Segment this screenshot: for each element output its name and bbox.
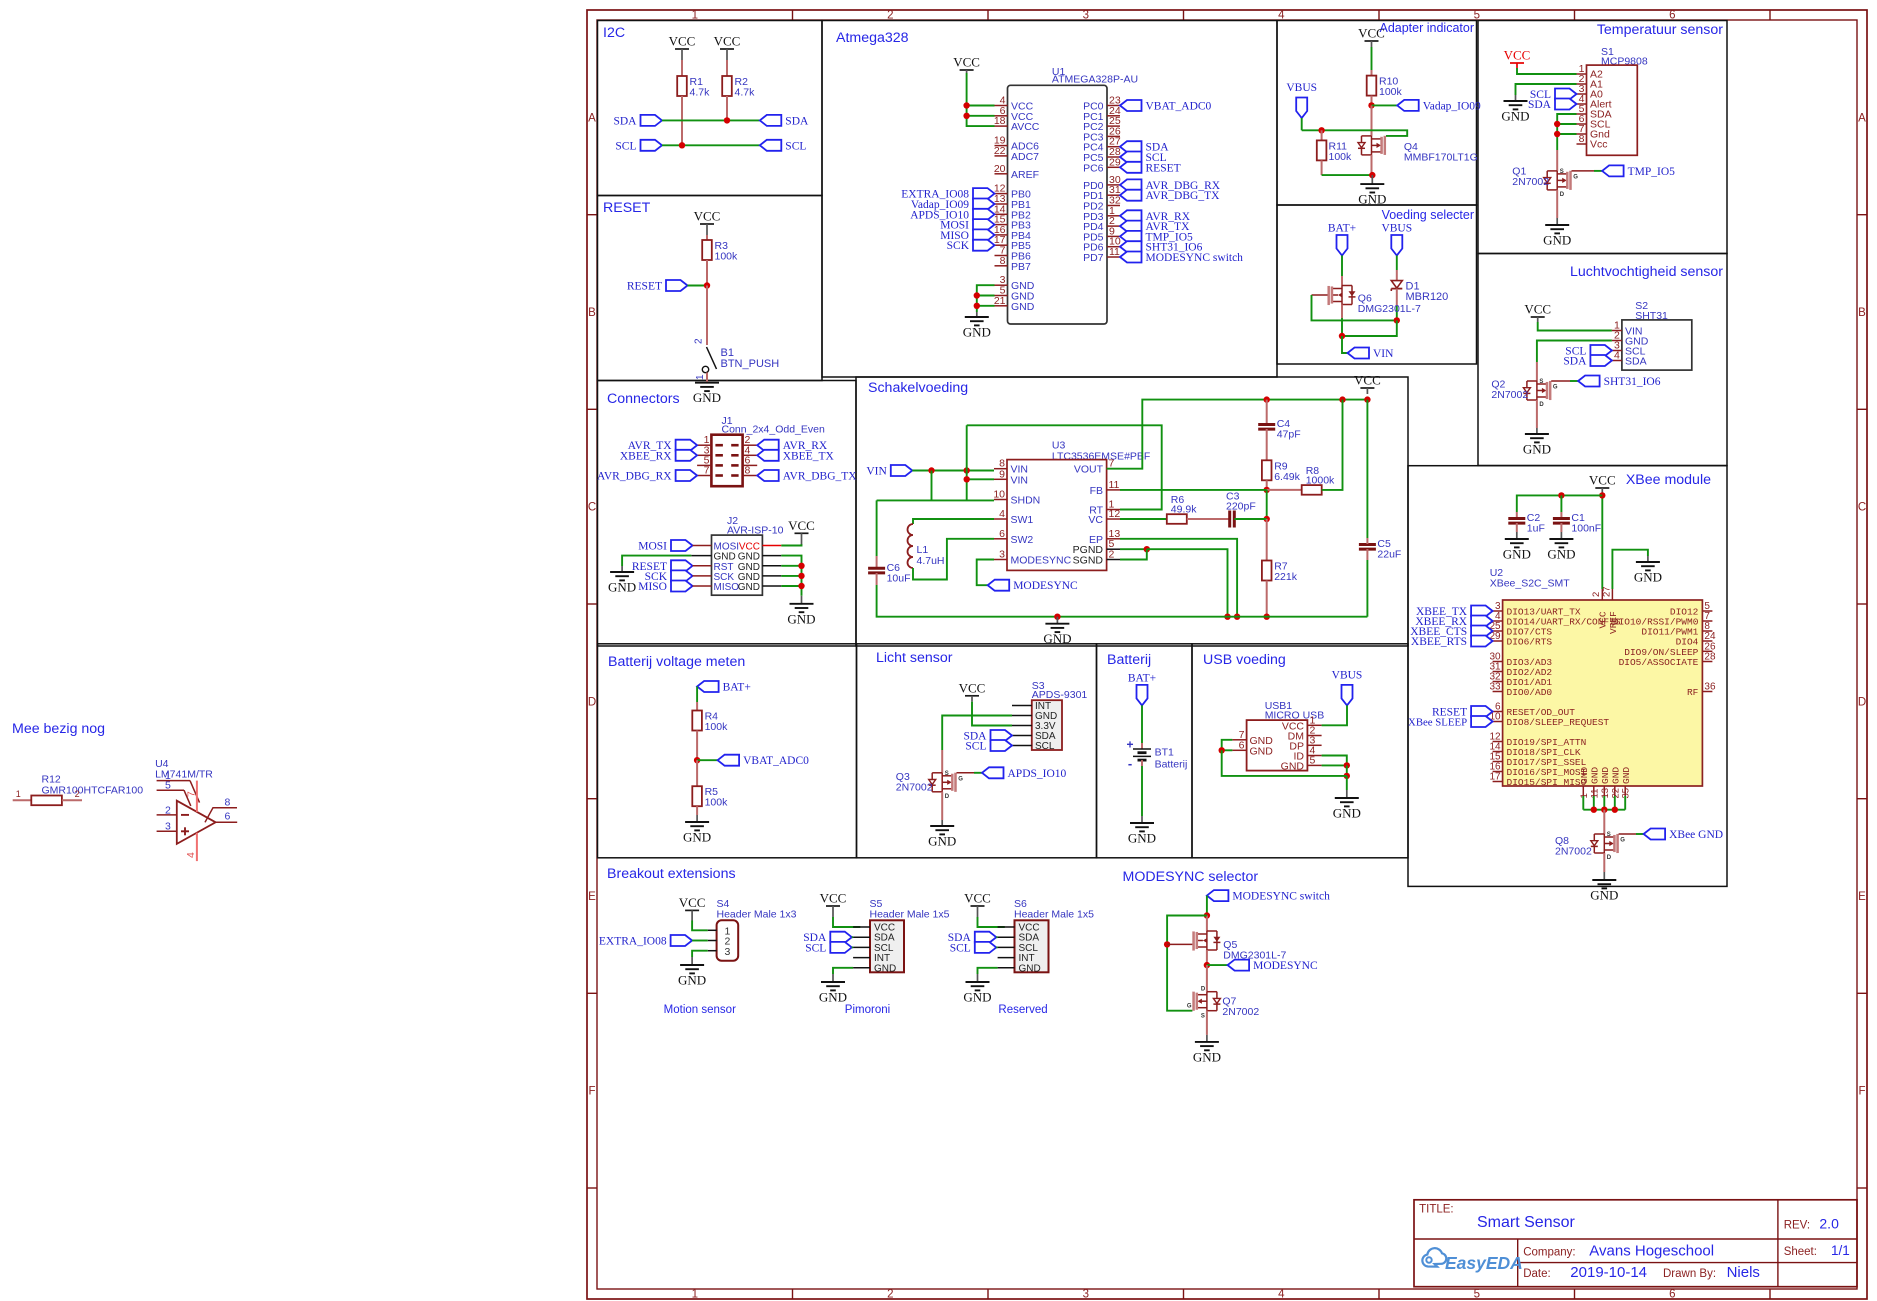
svg-text:D: D: [1560, 192, 1565, 198]
svg-text:VCC: VCC: [820, 891, 847, 906]
EasyEDA logo: [1422, 1248, 1522, 1273]
svg-text:VBUS: VBUS: [1332, 670, 1363, 682]
svg-text:VCC: VCC: [1589, 473, 1616, 488]
svg-text:100k: 100k: [1329, 151, 1353, 163]
pin 6 SW2 of U3: [994, 528, 1033, 546]
wire U2 gnd pin drop: [1582, 796, 1584, 810]
transistor Q3 2N7002: [896, 771, 963, 800]
svg-text:XBee module: XBee module: [1626, 472, 1711, 488]
pin 32 PD2 of U1: [1083, 195, 1121, 213]
svg-text:2N7002: 2N7002: [896, 782, 933, 794]
svg-text:1: 1: [695, 374, 706, 380]
wire U2 gnd pin drop: [1593, 796, 1595, 810]
frame row tick right: [1857, 214, 1867, 216]
pin 2 GND of S2: [1612, 330, 1649, 348]
svg-text:4: 4: [1278, 1288, 1285, 1300]
IC S2 SHT31: [1622, 300, 1692, 370]
svg-text:MBR120: MBR120: [1406, 291, 1449, 303]
svg-text:G: G: [1187, 1004, 1192, 1010]
wire node to flag: [697, 759, 718, 761]
pin 13 EP of U3: [1089, 528, 1120, 546]
svg-text:SCL: SCL: [805, 942, 826, 954]
pin 2 SDA of S6: [998, 936, 1015, 938]
section box Licht sensor: [857, 644, 1097, 858]
pin 4 SDA of S2: [1612, 350, 1647, 368]
wire R4 to node: [696, 731, 698, 761]
wire U2 gnd pin drop: [1603, 796, 1605, 810]
net port AVR_DBG_TX (U1): [1120, 190, 1220, 203]
net port Vadap_IO09 (adapter): [1397, 100, 1481, 113]
pin 2 A1 of S1: [1577, 73, 1604, 91]
frame row tick right: [1857, 992, 1867, 994]
wire R8 up to rail: [1322, 400, 1343, 490]
pin SCL of S3: [1012, 741, 1055, 752]
frame column tick top: [1183, 10, 1185, 20]
svg-text:4.7k: 4.7k: [735, 87, 756, 99]
wire gate to flag: [1594, 170, 1602, 172]
pin 1 VCC of USB1: [1282, 714, 1322, 732]
connector J1 Conn_2x4_Odd_Even: [711, 415, 825, 486]
junction VIN-pin9: [964, 467, 970, 473]
svg-text:GND: GND: [1523, 442, 1551, 457]
pin 6 GND of USB1: [1232, 739, 1273, 757]
svg-text:D: D: [1539, 402, 1544, 408]
wire GND pin21: [977, 305, 995, 307]
pin 19 ADC6 of U1: [994, 135, 1039, 153]
svg-text:A: A: [1858, 112, 1866, 124]
junction U1 vcc4: [963, 102, 969, 108]
wire node to R8: [1267, 489, 1302, 491]
frame column tick top: [1378, 10, 1380, 20]
wire VCC to R3: [706, 235, 708, 240]
svg-text:C: C: [1858, 502, 1866, 514]
power flag VCC (sht31): [1524, 302, 1551, 323]
wire R6 to C3: [1187, 518, 1230, 520]
pin 28 DIO5/ASSOCIATE of U2: [1619, 652, 1716, 669]
net port RESET (U1): [1120, 162, 1181, 175]
junction J2 gnd r2: [798, 563, 804, 569]
svg-text:BAT+: BAT+: [1328, 223, 1356, 235]
wire Q6 gate run: [1312, 294, 1328, 296]
net port SDA (S5): [803, 932, 852, 945]
svg-text:MODESYNC switch: MODESYNC switch: [1146, 252, 1244, 264]
wire C1 branch: [1560, 495, 1562, 512]
svg-text:VCC: VCC: [788, 518, 815, 533]
wire R1 to SCL line: [681, 96, 683, 145]
sheet frame inner border: [597, 20, 1857, 1289]
wire FB node down: [1266, 490, 1268, 519]
pin 1 RT of U3: [1089, 499, 1120, 517]
svg-text:1000k: 1000k: [1306, 474, 1335, 486]
net port AVR_TX (U1): [1120, 221, 1190, 234]
wire Q1 drain down: [1556, 190, 1558, 218]
frame row tick left: [587, 992, 597, 994]
transistor Q5 DMG2301L-7: [1192, 931, 1286, 962]
wire VCC to R1: [681, 60, 683, 76]
wire pin2 to gnd: [1516, 84, 1577, 95]
pin 10 PD6 of U1: [1083, 236, 1121, 254]
junction xbee gnd b: [1601, 807, 1607, 813]
wire Q2 gate: [1551, 380, 1570, 382]
svg-text:Date:: Date:: [1523, 1268, 1551, 1280]
svg-text:47pF: 47pF: [1277, 429, 1301, 441]
pin 10 DIO8/SLEEP_REQUEST of U2: [1489, 712, 1609, 729]
pin 1 of J1: [697, 444, 711, 446]
svg-text:Temperatuur sensor: Temperatuur sensor: [1597, 22, 1723, 38]
svg-text:VCC: VCC: [953, 55, 980, 70]
svg-text:GND: GND: [819, 990, 847, 1005]
svg-text:49.9k: 49.9k: [1171, 504, 1197, 516]
wire usb bottom rail: [1222, 750, 1347, 776]
wire GND left stub: [691, 555, 711, 557]
svg-text:AVR_DBG_TX: AVR_DBG_TX: [1146, 190, 1221, 202]
svg-text:SCL: SCL: [965, 741, 986, 753]
net port SDA (S3): [963, 730, 1012, 743]
svg-text:ATMEGA328P-AU: ATMEGA328P-AU: [1052, 74, 1138, 86]
section box I2C: [598, 21, 823, 196]
junction rail GND: [1054, 614, 1060, 620]
wire C4 top lead: [1266, 400, 1268, 424]
net port AVR_RX (J1): [757, 440, 828, 453]
module S3 APDS-9301: [1032, 680, 1088, 750]
svg-text:2: 2: [1109, 549, 1115, 561]
transistor Q2 2N7002: [1491, 379, 1558, 409]
IC S1 MCP9808: [1587, 46, 1648, 155]
wire Q2 drain down: [1536, 400, 1538, 428]
svg-text:E: E: [1858, 891, 1866, 903]
pin 3 SCL of S2: [1612, 340, 1646, 358]
svg-text:VCC: VCC: [714, 34, 741, 49]
wire GND r4 stub: [762, 585, 781, 587]
power flag VCC (U1): [953, 55, 980, 74]
frame column tick top: [792, 10, 794, 20]
wire GND left run: [622, 556, 691, 566]
svg-text:SDA: SDA: [613, 115, 637, 127]
junction VC node: [1264, 516, 1270, 522]
ground (S1): [1501, 95, 1529, 124]
svg-text:XBee GND: XBee GND: [1669, 829, 1723, 841]
net port AVR_DBG_TX (J1): [757, 470, 857, 483]
ground (S6): [963, 974, 991, 1005]
IC U3 LTC3536EMSE#PBF: [1007, 440, 1150, 571]
svg-text:ADC7: ADC7: [1011, 151, 1039, 163]
wire GND r4 run: [781, 585, 801, 587]
wire VCC to R10: [1371, 47, 1373, 70]
resistor R9 6.49k: [1262, 460, 1301, 483]
wire pin7 run: [1222, 740, 1233, 751]
frame column tick bottom: [792, 1289, 794, 1299]
svg-text:2N7002: 2N7002: [1555, 846, 1592, 858]
net port SHT31_IO6 (U1): [1120, 241, 1203, 254]
transistor Q4 MMBF170LT1G: [1358, 136, 1478, 164]
wire Q6 source down: [1341, 305, 1343, 319]
svg-text:11: 11: [1109, 479, 1120, 491]
svg-text:220pF: 220pF: [1226, 501, 1256, 513]
wire gate to flag: [1636, 833, 1644, 835]
resistor R2 4.7k: [722, 76, 755, 99]
svg-text:C: C: [588, 502, 596, 514]
pin 15 PB3 of U1: [994, 214, 1031, 232]
pin 4 ID of USB1: [1294, 745, 1322, 763]
svg-text:1: 1: [1579, 793, 1590, 798]
wire GND r3 run: [781, 575, 801, 577]
svg-text:BTN_PUSH: BTN_PUSH: [721, 358, 780, 370]
svg-text:33: 33: [1489, 682, 1501, 693]
section box Voeding selecter: [1277, 205, 1477, 364]
section box Batterij: [1097, 644, 1193, 858]
power flag VCC (schakel): [1354, 373, 1381, 395]
svg-text:G: G: [1553, 385, 1558, 391]
svg-text:100k: 100k: [715, 251, 739, 263]
svg-text:VCC: VCC: [1354, 373, 1381, 388]
svg-text:APDS-9301: APDS-9301: [1032, 689, 1088, 701]
svg-text:2: 2: [887, 1288, 893, 1300]
pin 6 SCL of S1: [1577, 113, 1611, 131]
net port VBUS (usb): [1332, 670, 1363, 706]
wire flag down: [1206, 896, 1208, 916]
wire down to Q1: [1556, 150, 1558, 171]
svg-text:5: 5: [1474, 9, 1480, 21]
frame column tick top: [1769, 10, 1771, 20]
frame row tick left: [587, 603, 597, 605]
svg-text:1/1: 1/1: [1831, 1243, 1850, 1258]
ground (J2 right): [787, 596, 815, 627]
svg-text:DMG2301L-7: DMG2301L-7: [1358, 303, 1421, 315]
power flag VCC (R2): [714, 34, 741, 61]
svg-text:35: 35: [1621, 788, 1632, 799]
net port SDA right: [760, 115, 809, 128]
wire SDA bus: [662, 119, 760, 121]
svg-text:GND: GND: [738, 582, 760, 593]
svg-text:GND: GND: [1611, 767, 1622, 784]
net port SCL (S3): [965, 740, 1012, 753]
net port MODESYNC switch (U1): [1120, 252, 1243, 265]
svg-text:USB voeding: USB voeding: [1203, 652, 1286, 668]
frame row tick left: [587, 408, 597, 410]
ground (C2): [1503, 532, 1531, 562]
wire VC to R6: [1120, 518, 1167, 520]
svg-text:13: 13: [1600, 788, 1611, 799]
svg-text:SHDN: SHDN: [1011, 495, 1041, 507]
wire D1 top lead: [1396, 270, 1398, 281]
frame row tick right: [1857, 1187, 1867, 1189]
pin 4 INT of S6: [998, 957, 1015, 959]
frame row tick right: [1857, 798, 1867, 800]
ground (sel): [1193, 1035, 1221, 1065]
svg-text:Sheet:: Sheet:: [1784, 1246, 1817, 1258]
power flag VCC (S4): [679, 895, 706, 911]
wire pin3 gnd: [692, 951, 708, 957]
svg-text:BAT+: BAT+: [1128, 672, 1156, 684]
section box Atmega328: [822, 21, 1277, 378]
wire L1 to SW2: [913, 539, 994, 580]
svg-text:8: 8: [745, 465, 751, 477]
junction Vadap node: [1368, 102, 1374, 108]
wire VBUS down: [1301, 118, 1303, 130]
svg-text:FB: FB: [1090, 485, 1103, 497]
pin 28 PC5 of U1: [1083, 146, 1121, 164]
svg-text:22: 22: [994, 145, 1006, 157]
pin 6 of J1: [743, 464, 758, 466]
connector J2 AVR-ISP-10: [712, 515, 784, 595]
net port MISO (J2): [638, 581, 692, 594]
connector S6 Header Male 1x5: [1014, 898, 1094, 974]
frame column tick bottom: [987, 1289, 989, 1299]
pin 6 RESET/OD_OUT of U2: [1493, 702, 1576, 719]
pin 12 VC of U3: [1088, 508, 1120, 526]
svg-text:VOUT: VOUT: [1074, 464, 1104, 476]
svg-text:VCC: VCC: [1358, 26, 1385, 41]
net port SCL (S2): [1565, 345, 1612, 358]
wire Q6 drain lead: [1341, 276, 1343, 286]
wire C5 top lead: [1366, 538, 1368, 544]
wire VBUS down: [1396, 256, 1398, 271]
svg-text:3: 3: [999, 549, 1005, 561]
wire left rail to C6: [876, 500, 878, 556]
wire to VIN flag: [1342, 336, 1348, 353]
ground (schakel): [1043, 617, 1071, 647]
net port TMP_IO5 (temp): [1602, 165, 1675, 178]
wire GND pin5: [977, 295, 995, 297]
svg-text:3: 3: [725, 946, 731, 958]
wire C5 bottom lead: [1366, 549, 1368, 560]
wire D1 to junction: [1396, 306, 1398, 320]
section box RESET: [598, 196, 823, 381]
pin 29 PC6 of U1: [1083, 156, 1121, 174]
svg-text:GND: GND: [963, 990, 991, 1005]
pin 3 MODESYNC of U3: [994, 549, 1072, 567]
junction J2 gnd r4: [798, 583, 804, 589]
wire to pin9: [967, 478, 994, 480]
junction usb gnd6: [1219, 747, 1225, 753]
svg-text:RESET: RESET: [1146, 162, 1181, 174]
pin 8 Vcc of S1: [1577, 133, 1608, 151]
wire SCL bus: [662, 144, 760, 146]
svg-text:GND: GND: [1547, 547, 1575, 562]
frame row tick right: [1857, 408, 1867, 410]
net port SCL left: [615, 140, 662, 153]
svg-text:SDA: SDA: [785, 115, 809, 127]
wire BT1 bottom lead: [1141, 760, 1143, 766]
wire C1 top lead: [1560, 512, 1562, 518]
transistor Q7 2N7002: [1187, 987, 1259, 1020]
svg-text:12: 12: [1109, 508, 1121, 520]
wire Q8 gate: [1619, 833, 1636, 835]
svg-text:1uF: 1uF: [1527, 523, 1545, 535]
pin 2 VCC of U2: [1591, 589, 1609, 629]
svg-text:REV:: REV:: [1784, 1219, 1810, 1231]
net port BAT+ (meten): [697, 681, 751, 694]
pin GND of S3: [1012, 711, 1057, 722]
svg-text:EasyEDA: EasyEDA: [1445, 1253, 1523, 1273]
svg-text:AVCC: AVCC: [1011, 121, 1040, 133]
net port VIN (schakel): [866, 465, 912, 478]
wire Q1 gate: [1572, 170, 1595, 172]
junction U1 vcc6: [963, 113, 969, 119]
net port SDA left: [613, 115, 662, 128]
wire U2 gnd pin drop: [1614, 796, 1616, 810]
pin 17 PB5 of U1: [994, 234, 1031, 252]
pin 24 PC1 of U1: [1083, 105, 1121, 123]
wire RST stub: [693, 565, 712, 567]
wire vert pin9-shdn: [966, 425, 968, 500]
pin 32 DIO1/AD1 of U2: [1489, 672, 1552, 689]
pin 1 A2 of S1: [1577, 63, 1604, 81]
svg-text:VCC: VCC: [964, 891, 991, 906]
pin 2 of J1: [743, 444, 758, 446]
net port SDA (U1): [1120, 141, 1169, 154]
svg-text:AREF: AREF: [1011, 169, 1039, 181]
pin 26 DIO9/ON/SLEEP of U2: [1624, 641, 1716, 658]
frame column tick bottom: [1769, 1289, 1771, 1299]
pin 25 DIO7/CTS of U2: [1489, 621, 1552, 638]
wire SCL to pin3 S6: [996, 946, 997, 948]
resistor R7 221k: [1262, 561, 1298, 584]
svg-text:MISO: MISO: [714, 582, 740, 593]
frame column tick top: [987, 10, 989, 20]
svg-text:XBEE_TX: XBEE_TX: [783, 450, 835, 462]
wire source to VIN node: [1341, 318, 1343, 336]
svg-text:SCL: SCL: [785, 140, 806, 152]
svg-text:VBUS: VBUS: [1286, 82, 1317, 94]
wire C6 bottom lead: [876, 573, 878, 585]
transistor Q6 DMG2301L-7: [1328, 286, 1421, 316]
resistor R3 100k: [702, 240, 738, 263]
wire C4 to R9: [1266, 429, 1268, 460]
svg-text:4: 4: [185, 852, 197, 858]
net port MODESYNC switch (sel): [1207, 890, 1330, 903]
wire SCL to pin3 S5: [852, 946, 853, 948]
pin 22 GND of U2: [1610, 767, 1621, 799]
wire U2 gnd pin drop: [1624, 796, 1626, 810]
pin 31 DIO2/AD2 of U2: [1489, 662, 1552, 679]
svg-text:F: F: [588, 1086, 595, 1098]
junction VBAT node: [694, 757, 700, 763]
wire switch to GND: [706, 373, 708, 383]
pin INT of S3: [1012, 701, 1051, 712]
svg-text:TMP_IO5: TMP_IO5: [1628, 166, 1676, 178]
svg-text:MODESYNC: MODESYNC: [1011, 555, 1072, 567]
wire R11 top lead: [1321, 130, 1323, 140]
svg-text:SCK: SCK: [947, 240, 970, 252]
svg-text:GND: GND: [1590, 888, 1618, 903]
wire C1 bottom lead: [1560, 523, 1562, 532]
wire node to Vadap flag: [1372, 104, 1398, 106]
svg-text:XBee_S2C_SMT: XBee_S2C_SMT: [1490, 578, 1571, 590]
net port APDS_IO10 (U1): [910, 209, 994, 222]
svg-text:GND: GND: [683, 830, 711, 845]
svg-text:MMBF170LT1G: MMBF170LT1G: [1404, 152, 1478, 164]
wire pin5 gnd S5: [833, 968, 853, 974]
ground (adapter): [1358, 175, 1386, 207]
svg-text:GND: GND: [787, 611, 815, 626]
wire GND5 run: [1322, 764, 1347, 766]
net port RESET: [627, 280, 688, 293]
wire BT1 top lead: [1141, 743, 1143, 749]
svg-text:4.7uH: 4.7uH: [917, 555, 945, 567]
net port XBEE_TX (J1): [757, 450, 834, 463]
resistor R12 GMR100HTCFAR100: [13, 774, 143, 806]
pin 15 DIO17/SPI_SSEL of U2: [1489, 752, 1586, 769]
svg-text:RESET: RESET: [627, 281, 662, 293]
svg-text:2N7002: 2N7002: [1491, 389, 1528, 401]
svg-text:S: S: [1560, 169, 1564, 175]
junction D1-gate: [1394, 317, 1400, 323]
svg-text:VBAT_ADC0: VBAT_ADC0: [1146, 101, 1212, 113]
svg-text:BAT+: BAT+: [723, 682, 751, 694]
svg-text:GND: GND: [1600, 767, 1611, 784]
pin 3 DP of USB1: [1289, 734, 1321, 752]
